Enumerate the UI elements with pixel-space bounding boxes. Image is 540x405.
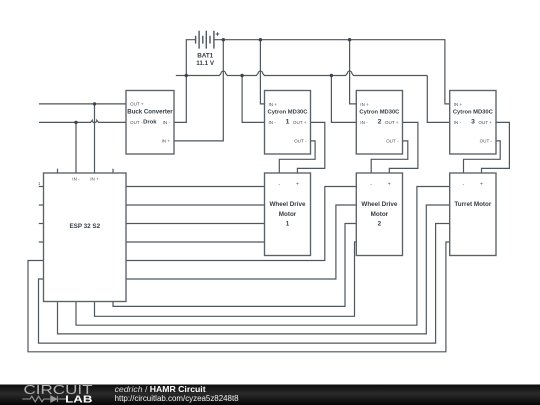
svg-text:IN +: IN + [360,102,369,107]
wire Cytron1 OUT+ to Motor1 + [297,122,324,173]
svg-text:http://circuitlab.com/cyzea5z8: http://circuitlab.com/cyzea5z8248t8 [115,394,240,403]
wire Cytron1 OUT- to Motor1 - [279,141,315,173]
svg-text:Cytron MD30C: Cytron MD30C [453,110,494,116]
svg-text:+: + [388,182,391,188]
pin stub ESP left row1 [39,186,44,188]
wire battery+ bus to Cytron3 IN+ [214,40,450,104]
svg-text:IN -: IN - [72,177,80,182]
svg-text:OUT +: OUT + [130,102,144,107]
microcontroller ESP 32 S2 [44,173,127,302]
pin stub ESP top 4 [112,169,114,173]
junction dot battery+/Cytron2 IN+ [348,38,351,41]
svg-text:IN +: IN + [269,102,278,107]
svg-text:cedrich / HAMR Circuit: cedrich / HAMR Circuit [115,385,206,394]
svg-text:2: 2 [378,118,382,125]
wire ESP pin to Motor1 pin2 [126,204,265,206]
svg-text:Wheel Drive: Wheel Drive [269,201,306,208]
svg-text:11.1 V: 11.1 V [196,60,215,67]
wire ESP pin to Motor2 pin2 [126,205,356,279]
junction dot ground/Cytron1 IN- [240,74,243,77]
svg-text:OUT -: OUT - [294,139,307,144]
svg-text:+: + [296,182,299,188]
svg-text:OUT -: OUT - [386,139,399,144]
svg-text:IN +: IN + [454,102,463,107]
svg-text:3: 3 [471,118,475,125]
junction dot Buck OUT+/ESP IN+ [93,102,96,105]
wire Buck OUT- down to ESP IN- [75,122,77,173]
wire ground bus down to Cytron3 IN- [427,76,449,123]
wire ground bus down to Cytron2 IN- [331,76,356,123]
svg-text:IN -: IN - [454,120,462,125]
pin stub ESP left row2 [39,204,44,206]
CircuitLab logo doodle wire+resistor [22,396,66,402]
svg-text:IN +: IN + [90,177,99,182]
wire Cytron3 OUT+ to Turret + [482,122,510,173]
motor driver U3 Cytron MD30C [450,91,496,155]
wire Buck OUT+ [39,103,126,105]
svg-text:IN +: IN + [161,139,170,144]
wire ESP pin to Turret pin1 [76,187,450,326]
battery plus sign [216,32,220,36]
wire ESP pin to Motor2 pin1 [126,187,356,261]
junction dot battery-/ground bus [185,74,188,77]
wire ESP pin to Motor2 pin3 [113,224,356,307]
svg-text:Turret Motor: Turret Motor [454,201,492,208]
svg-text:Motor: Motor [279,211,297,218]
motor driver U1 Cytron MD30C [265,91,311,155]
wire Cytron2 OUT+ to Motor2 + [389,122,418,173]
pin stub ESP left row4 [39,241,44,243]
wire ground bus [186,71,427,75]
wire ESP pin to Motor1 pin1 [126,186,265,188]
wire ground bus down to Cytron1 IN- [242,76,264,123]
svg-text:OUT +: OUT + [478,120,492,125]
junction dot Buck OUT-/ESP IN- [74,121,77,124]
wire ESP pin to Motor2 pin4 [95,242,357,316]
svg-text:2: 2 [378,220,382,227]
svg-text:OUT +: OUT + [293,120,307,125]
wire battery+ down to Cytron1 IN+ [260,40,264,104]
wire ground bus left tail [176,75,187,77]
CircuitLab logo doodle diode [51,396,58,402]
pin stub ESP top 1 [57,169,59,173]
svg-text:IN -: IN - [360,120,368,125]
wire battery- down to Buck IN- [174,40,196,123]
svg-text:OUT -: OUT - [130,120,143,125]
svg-text:OUT -: OUT - [480,139,493,144]
svg-text:Wheel Drive: Wheel Drive [361,201,398,208]
svg-text:Drok: Drok [143,120,157,126]
wire ESP pin to Turret pin3 [39,224,450,344]
pin stub ESP left row3 [39,223,44,225]
svg-text:ESP 32 S2: ESP 32 S2 [69,223,100,230]
svg-text:+: + [480,182,483,188]
svg-text:Motor: Motor [371,211,389,218]
svg-text:OUT +: OUT + [385,120,399,125]
wire ESP pin to Motor1 pin3 [126,223,265,225]
battery BAT1 [196,31,214,49]
motor M3 Turret Motor [450,173,496,256]
motor M1 Wheel Drive Motor 1 [265,173,311,256]
wire ESP pin to Turret pin2 [58,205,450,334]
motor M2 Wheel Drive Motor 2 [356,173,402,256]
wire ESP pin to Motor1 pin4 [126,241,265,243]
wire Cytron3 OUT- to Turret - [464,141,501,173]
svg-text:IN -: IN - [163,120,171,125]
svg-text:1: 1 [286,220,290,227]
motor driver U2 Cytron MD30C [356,91,402,155]
svg-text:1: 1 [286,118,290,125]
wire Cytron2 OUT- to Motor2 - [371,141,408,173]
svg-text:IN -: IN - [269,120,277,125]
svg-text:Cytron MD30C: Cytron MD30C [268,110,309,116]
svg-text:Buck Converter: Buck Converter [127,109,173,116]
buck converter module [126,91,174,155]
junction dot battery+/Buck IN+ [222,38,225,41]
wire Buck OUT- [39,120,126,122]
svg-text:BAT1: BAT1 [197,53,213,60]
junction dot battery+/Cytron1 IN+ [259,38,262,41]
svg-text:Cytron MD30C: Cytron MD30C [359,110,400,116]
wire battery+ down to Cytron2 IN+ [350,40,357,104]
svg-text:LAB: LAB [65,394,93,405]
junction dot ground/Cytron2 IN- [330,74,333,77]
wire Buck OUT+ down to ESP IN+ [94,104,96,173]
wire Buck IN+ up to battery+ [174,40,223,141]
wire ESP pin to Turret pin4 [28,242,450,352]
